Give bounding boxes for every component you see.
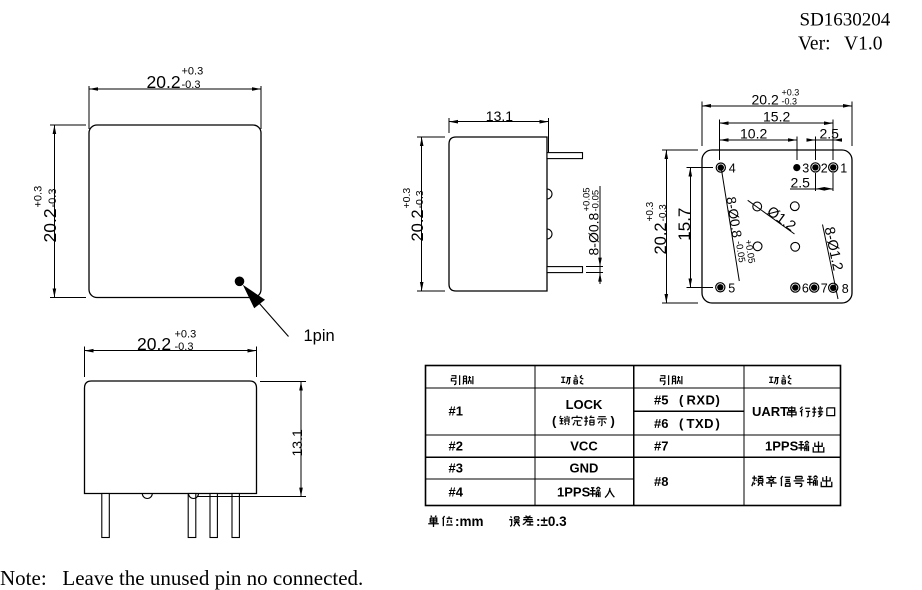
svg-text:): ): [611, 414, 615, 429]
svg-text:-0.3: -0.3: [182, 79, 201, 91]
svg-text:+0.3: +0.3: [645, 201, 656, 221]
svg-text:8: 8: [842, 282, 849, 296]
side view pin diameter dimension extension lines: [586, 266, 603, 268]
svg-text:8-Ø0.8: 8-Ø0.8: [723, 196, 744, 239]
bottom view dimension 10.2 extension line: [796, 137, 798, 161]
bottom view left dimension 20.2 text rotated: [645, 201, 670, 254]
bottom view dimension 2.5 bottom extension lines: [815, 173, 817, 191]
svg-text:2.5: 2.5: [791, 174, 811, 190]
svg-text:VCC: VCC: [570, 439, 598, 454]
unit note: [428, 516, 439, 527]
svg-text:UART: UART: [752, 404, 788, 419]
pin 4 pad: [716, 163, 725, 172]
lower view standoff bump right: [189, 494, 199, 499]
alignment hole top-left: [753, 202, 762, 211]
lower view top dimension 20.2 extension lines: [84, 347, 86, 378]
table header pin column 2: [660, 375, 668, 385]
svg-text:#6: #6: [654, 416, 668, 431]
pin 5 pad: [716, 283, 725, 292]
bottom view dimension 15.2 line: [720, 122, 834, 124]
svg-text:+0.3: +0.3: [175, 328, 197, 340]
bottom view dimension 15.2 extension lines: [719, 120, 721, 161]
svg-text:3: 3: [802, 162, 809, 176]
bottom view dimension 2.5 top extension line: [815, 137, 817, 161]
svg-text:1pin: 1pin: [304, 327, 335, 345]
table header pin column 1: [451, 375, 459, 385]
lower view right dimension text 13.1 rotated: [289, 429, 305, 456]
svg-text:#8: #8: [654, 474, 668, 489]
svg-text:-0.05: -0.05: [733, 240, 747, 263]
bottom view left dimension 20.2 line: [665, 150, 667, 303]
svg-text:TXD: TXD: [687, 416, 715, 431]
svg-text:13.1: 13.1: [486, 108, 513, 124]
side view top dimension 13.1 extension lines: [448, 118, 450, 133]
svg-text:#3: #3: [449, 461, 463, 476]
svg-text:20.2: 20.2: [147, 72, 181, 92]
table row line 3: [426, 478, 634, 480]
lower view pin 3: [188, 494, 196, 538]
svg-text:15.7: 15.7: [675, 208, 694, 241]
leader 8-O1.2 line: [823, 225, 839, 300]
table row line 1: [426, 434, 841, 436]
leader 8-O0.8 line: [721, 169, 739, 282]
svg-text:#1: #1: [449, 404, 463, 419]
svg-text:SD1630204: SD1630204: [800, 10, 891, 31]
svg-text:20.2: 20.2: [652, 222, 670, 254]
svg-text:20.2: 20.2: [409, 209, 427, 241]
svg-text:GND: GND: [570, 461, 599, 476]
table header function column 1: [561, 377, 571, 384]
leader O1.2 line: [748, 200, 795, 234]
table row line header: [426, 387, 841, 389]
svg-text:-0.3: -0.3: [658, 204, 669, 222]
side view standoff bump upper: [547, 189, 552, 199]
svg-text:RXD: RXD: [687, 393, 716, 408]
lower view pin 4: [102, 494, 110, 538]
svg-text:(: (: [679, 416, 684, 431]
svg-text:8-Ø0.8: 8-Ø0.8: [586, 212, 602, 255]
front view left dimension text 20.2 +0.3/-0.3 rotated: [32, 186, 60, 243]
svg-text:20.2: 20.2: [137, 334, 171, 354]
svg-text:LOCK: LOCK: [566, 397, 603, 412]
svg-text:-0.3: -0.3: [782, 97, 798, 107]
svg-text::±0.3: :±0.3: [536, 514, 567, 529]
svg-text:13.1: 13.1: [289, 429, 305, 456]
pin 8 pad: [829, 283, 838, 292]
svg-text::mm: :mm: [455, 514, 484, 529]
svg-text:10.2: 10.2: [740, 126, 767, 142]
lower view pin 1: [232, 494, 239, 538]
svg-text:-0.3: -0.3: [414, 190, 426, 208]
alignment hole top-right: [790, 202, 799, 211]
pin 2 pad: [811, 163, 820, 172]
table outer border: [426, 366, 841, 506]
bottom view dimension 20.2 top line: [702, 105, 852, 107]
table row line 2: [426, 456, 841, 458]
side view left dimension 20.2 line: [421, 137, 423, 291]
svg-text:V1.0: V1.0: [844, 34, 882, 55]
svg-text:15.2: 15.2: [763, 109, 790, 125]
alignment hole bottom-left: [753, 242, 762, 251]
side view pin top: [547, 153, 583, 159]
table cell frequency signal output: [752, 476, 763, 487]
svg-text:4: 4: [729, 162, 736, 176]
bottom view dimension 2.5 top line: [810, 139, 839, 141]
svg-text:#5: #5: [654, 393, 668, 408]
tolerance note: [509, 516, 520, 526]
front view body outline: [89, 125, 261, 298]
side view pin diameter text 8-O0.8 +0.05/-0.05 rotated: [582, 187, 602, 255]
svg-text:1PPS: 1PPS: [557, 485, 591, 500]
svg-text:8-Ø1.2: 8-Ø1.2: [821, 226, 846, 273]
leader 8-O1.2 text rotated: [821, 226, 846, 273]
svg-text:): ): [716, 393, 720, 408]
alignment hole bottom-right: [791, 242, 800, 251]
table row line rxd/txd split: [634, 410, 744, 412]
pin 7 pad: [810, 283, 819, 292]
pin 1 pad: [829, 163, 838, 172]
front view top dimension 20.2 line: [89, 88, 261, 90]
bottom view dimension 2.5 bottom line: [790, 188, 833, 190]
svg-text:(: (: [552, 414, 557, 429]
side view body outline: [449, 137, 547, 291]
svg-text:6: 6: [802, 282, 809, 296]
lower view body outline: [85, 381, 257, 494]
svg-text:2: 2: [821, 162, 828, 176]
lower view right dimension 13.1 extension lines: [260, 381, 306, 383]
svg-text:Note: Leave the unused pin n: Note: Leave the unused pin no connected.: [0, 566, 363, 590]
side view pin bottom: [547, 267, 583, 273]
leader O1.2 text rotated: [764, 203, 799, 234]
side view standoff bump lower: [547, 229, 552, 239]
pin 1 leader line: [259, 303, 289, 337]
table column line 1: [534, 366, 536, 506]
front view top dimension 20.2 extension lines: [88, 86, 90, 129]
svg-text:1PPS: 1PPS: [765, 439, 799, 454]
side view pin diameter dimension line: [599, 186, 601, 284]
leader 8-O0.8 text rotated: [723, 194, 757, 266]
svg-text:+0.3: +0.3: [32, 186, 44, 208]
bottom view dimension 20.2 top extension lines: [701, 102, 703, 147]
bottom view body outline: [702, 150, 852, 303]
svg-text:7: 7: [821, 282, 828, 296]
svg-text:(: (: [679, 393, 684, 408]
svg-text:2.5: 2.5: [820, 126, 840, 142]
svg-text:20.2: 20.2: [40, 208, 60, 242]
svg-text:): ): [716, 416, 720, 431]
lower view top dimension 20.2 line: [85, 350, 257, 352]
svg-text:5: 5: [728, 281, 735, 295]
side view left dimension 20.2 extension lines: [417, 136, 445, 138]
pin 1 marker dot: [235, 277, 245, 287]
bottom view dimension 15.7 line: [689, 168, 691, 288]
svg-text:Ø1.2: Ø1.2: [764, 203, 799, 234]
svg-text:20.2: 20.2: [752, 92, 779, 108]
side view top dimension 13.1 line: [449, 121, 549, 123]
pin 1 marker arrow: [243, 285, 265, 308]
lower view pin 2: [210, 494, 217, 538]
front view left dimension 20.2 line: [53, 125, 55, 298]
svg-text:+0.3: +0.3: [182, 66, 204, 78]
svg-text:+0.3: +0.3: [401, 188, 413, 209]
bottom view dimension 15.7 text rotated: [675, 208, 694, 241]
table column line 3: [743, 366, 745, 506]
table column line 2: [633, 366, 635, 506]
bottom view dimension 10.2 line: [720, 139, 798, 141]
svg-text:#2: #2: [449, 439, 463, 454]
svg-text:#7: #7: [654, 439, 668, 454]
svg-text:Ver:: Ver:: [798, 34, 831, 55]
bottom view dimension 15.7 extension lines: [687, 167, 714, 169]
lower view right dimension 13.1 line: [300, 382, 302, 497]
table header function column 2: [769, 377, 779, 384]
svg-text:-0.3: -0.3: [175, 341, 194, 353]
front view left dimension 20.2 extension lines: [50, 124, 86, 126]
svg-text:-0.3: -0.3: [47, 189, 59, 208]
svg-text:1: 1: [840, 162, 847, 176]
svg-text:#4: #4: [449, 485, 464, 500]
bottom view left dimension 20.2 extension lines: [662, 149, 698, 151]
lower view standoff bump left: [142, 494, 152, 499]
svg-text:-0.05: -0.05: [591, 190, 602, 212]
pin 3 pad: [793, 164, 800, 171]
side view left dimension text 20.2 +0.3/-0.3 rotated: [401, 188, 427, 242]
pin 6 pad: [791, 283, 800, 292]
